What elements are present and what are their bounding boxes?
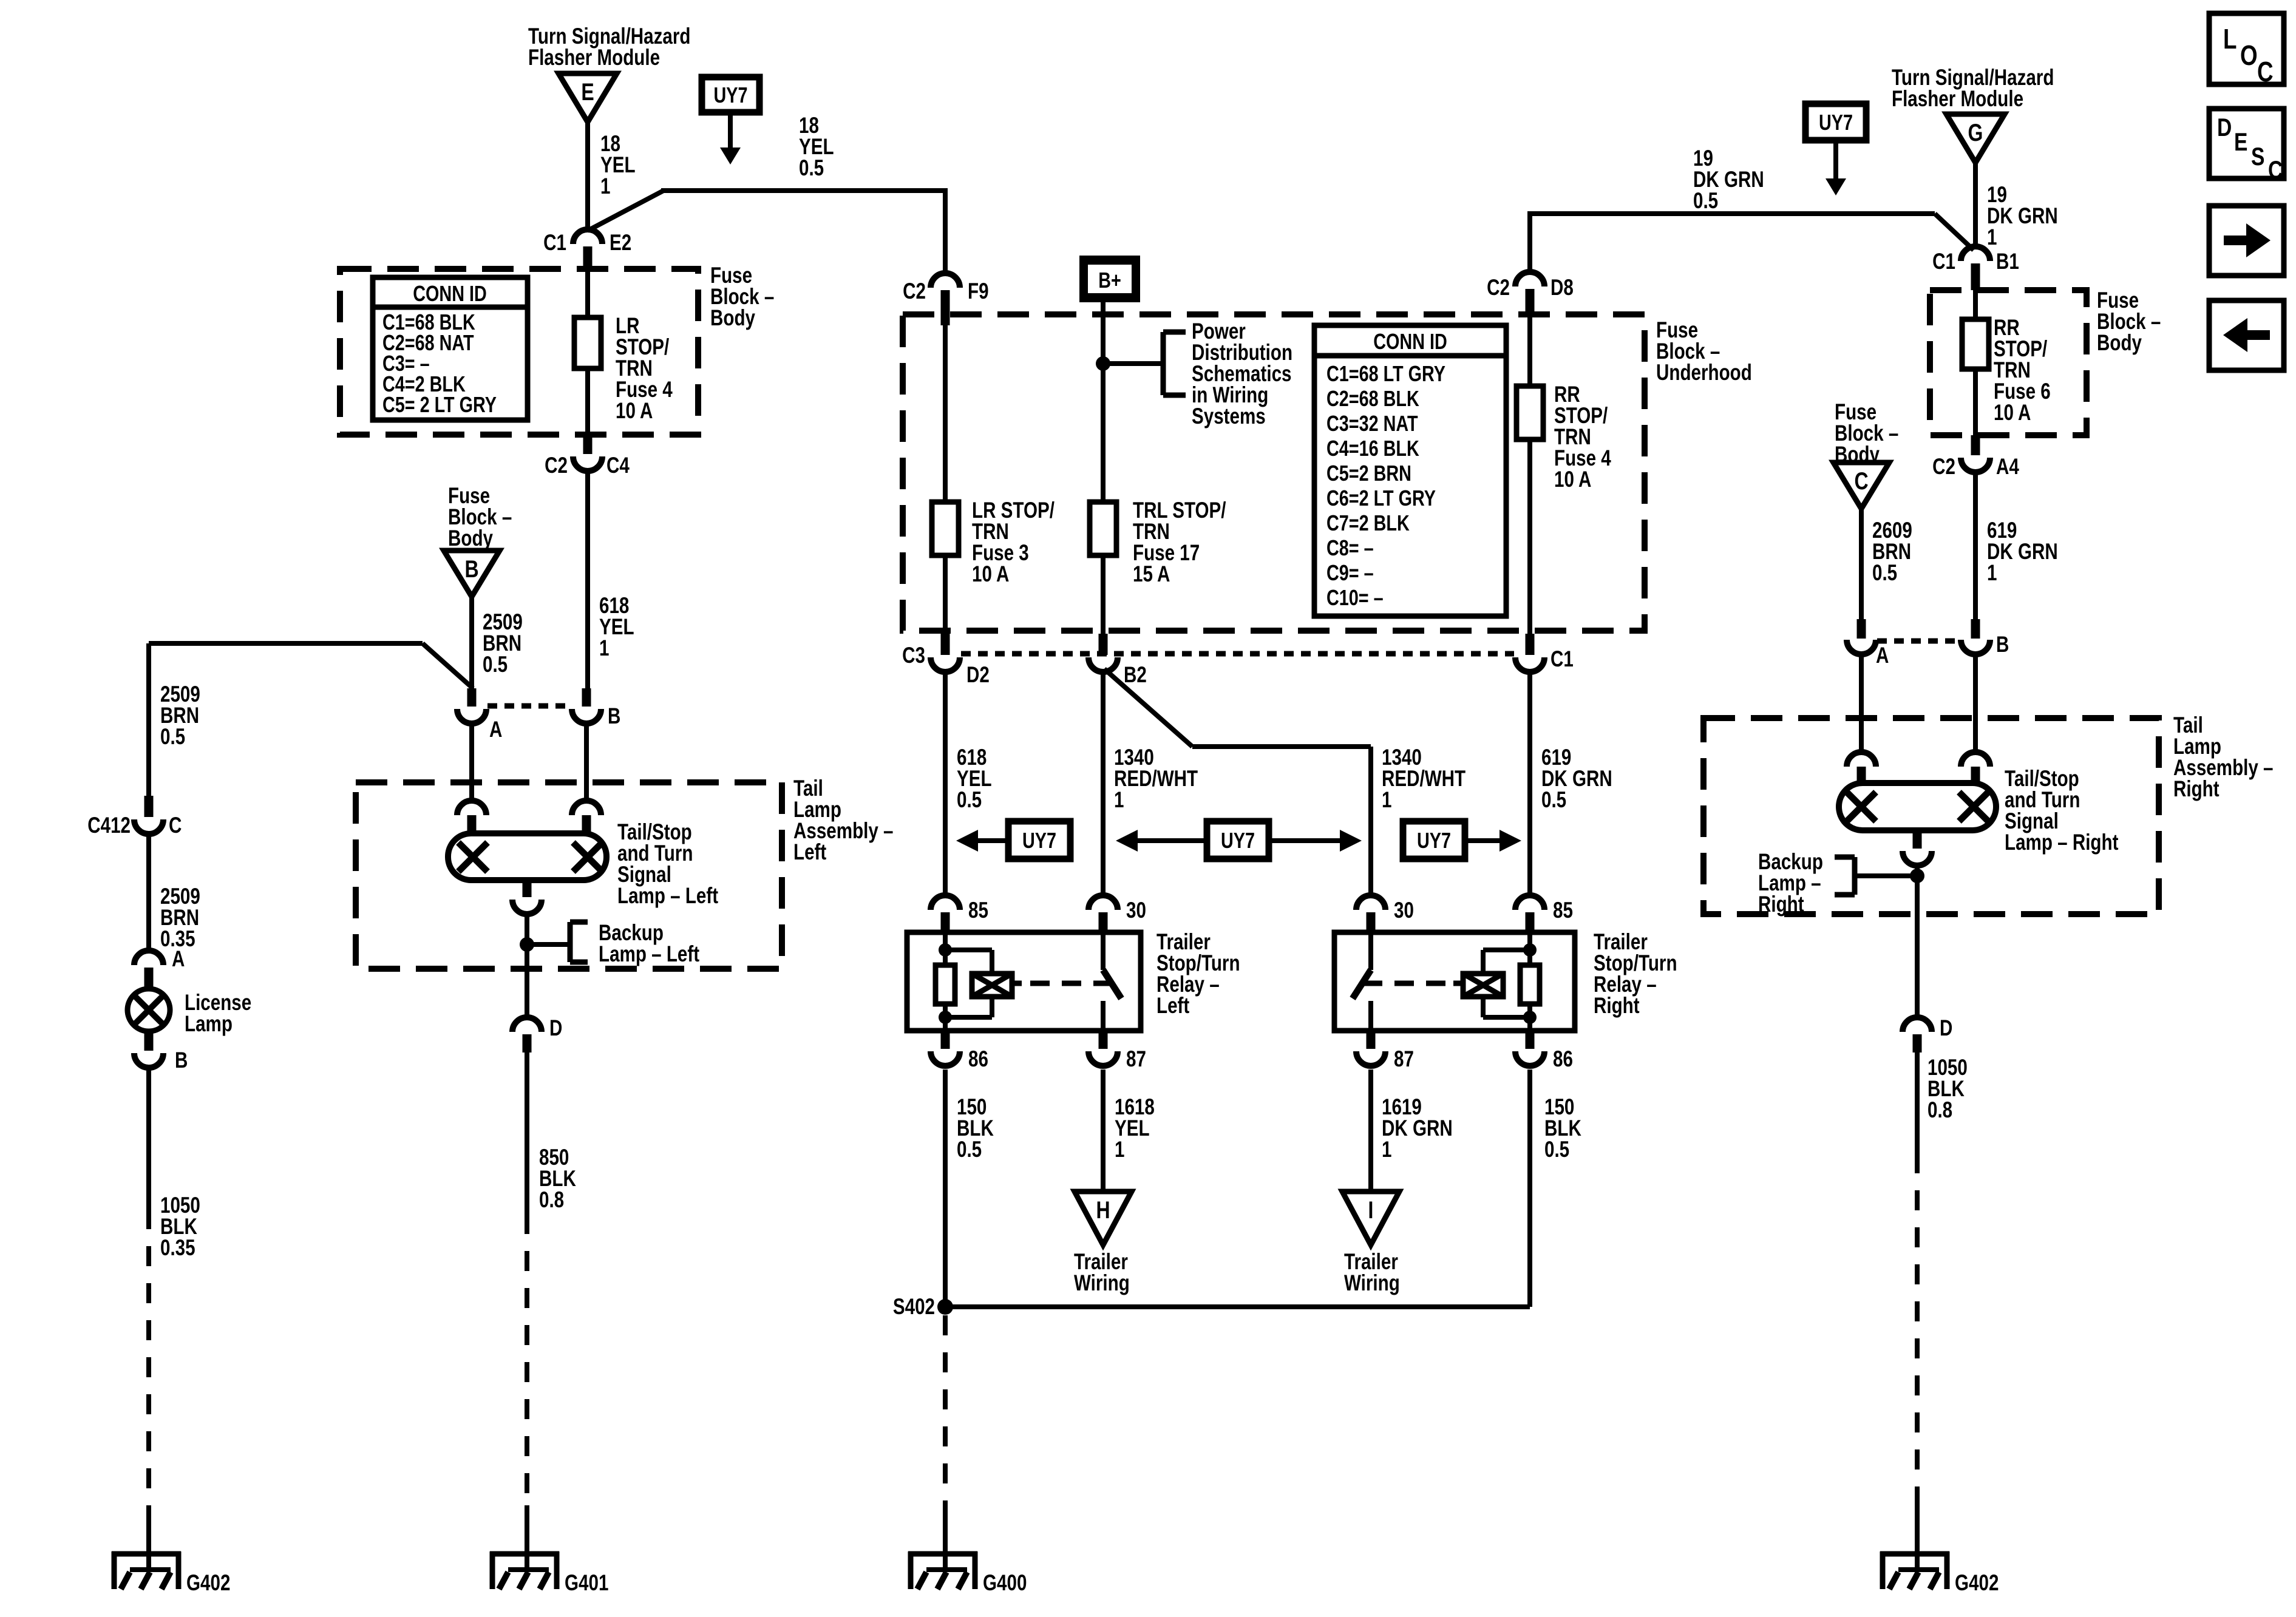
relay right pin 30	[1356, 895, 1385, 910]
svg-text:C: C	[1854, 467, 1868, 495]
connector B (tail lamp left feed)	[582, 688, 591, 707]
arrow UY7 to 618 wire	[978, 838, 1008, 843]
svg-text:C2: C2	[1487, 276, 1510, 300]
inline connector dotted line (left pair)	[487, 703, 571, 709]
svg-text:C2: C2	[545, 453, 568, 478]
svg-text:C3=32 NAT: C3=32 NAT	[1326, 411, 1418, 436]
tail lamp assembly left dashed box	[356, 782, 782, 969]
svg-text:B: B	[608, 704, 620, 729]
nav box arrow left	[2209, 300, 2284, 370]
svg-text:1: 1	[1987, 561, 1997, 586]
svg-text:CONN ID: CONN ID	[413, 281, 487, 306]
svg-text:F9: F9	[968, 279, 989, 304]
wire lamp to junction	[525, 913, 529, 971]
connector C1 (underhood out)	[1526, 634, 1535, 655]
tail/stop turn signal lamp left	[448, 833, 606, 880]
svg-text:DK GRN: DK GRN	[1382, 1116, 1453, 1141]
CONN ID table 1	[373, 277, 528, 420]
svg-text:I: I	[1368, 1196, 1374, 1224]
svg-text:UY7: UY7	[1022, 828, 1056, 853]
svg-text:87: 87	[1126, 1047, 1146, 1072]
wire 618 YEL 0.5 down	[943, 672, 948, 895]
flasher module triangle E	[559, 73, 617, 122]
wire diagonal from C1/E2 to horizontal	[588, 191, 664, 231]
lamp right bottom connector	[1913, 830, 1922, 849]
svg-text:C8= –: C8= –	[1326, 535, 1374, 560]
wire down to C2/F9	[943, 188, 948, 274]
wire B into right box	[1973, 654, 1978, 753]
svg-text:0.5: 0.5	[1541, 788, 1566, 813]
relay left pin 87	[1099, 1031, 1108, 1049]
svg-text:0.5: 0.5	[957, 788, 982, 813]
svg-text:10 A: 10 A	[972, 562, 1009, 587]
svg-text:D2: D2	[966, 663, 990, 688]
svg-text:Right: Right	[1594, 994, 1640, 1019]
flasher module triangle G	[1946, 114, 2005, 163]
connector C2/D8	[1515, 272, 1544, 286]
fuse LR STOP/TRN Fuse 3 10A	[932, 502, 959, 555]
power feed box B+	[1079, 256, 1140, 302]
wire 19 DK GRN horizontal	[1530, 211, 1935, 216]
relay left pin 86	[941, 1031, 950, 1049]
trailer wiring triangle I	[1342, 1192, 1399, 1245]
wire to power distribution bracket	[1103, 361, 1163, 366]
svg-text:0.5: 0.5	[1872, 561, 1897, 586]
relay right resistor	[1520, 965, 1540, 1004]
svg-text:C5= 2 LT GRY: C5= 2 LT GRY	[382, 392, 497, 417]
svg-text:C7=2 BLK: C7=2 BLK	[1326, 510, 1410, 535]
relay left switch	[1101, 932, 1106, 970]
wire lamp right to junction	[1915, 864, 1920, 917]
trailer stop/turn relay left box	[907, 932, 1141, 1031]
wire C2/D8 to C1 right	[1527, 314, 1532, 634]
code box UY7 (618)	[1008, 821, 1070, 859]
relay right coil wire	[1527, 932, 1532, 1031]
fuse block body dashed box (left)	[340, 269, 698, 435]
backup lamp right bracket	[1852, 857, 1858, 895]
svg-text:D8: D8	[1550, 276, 1574, 300]
svg-text:Flasher Module: Flasher Module	[528, 46, 660, 70]
nav box LOC	[2209, 13, 2284, 84]
connector D left	[512, 1017, 542, 1032]
svg-text:H: H	[1096, 1196, 1110, 1224]
svg-text:DK GRN: DK GRN	[1987, 540, 2058, 564]
wire to backup bracket left	[527, 942, 570, 947]
svg-text:Right: Right	[1758, 892, 1804, 917]
wire F9 to C3	[943, 314, 948, 634]
CONN ID table 2	[1314, 325, 1506, 616]
fuse RR STOP/TRN Fuse 4 10A	[1517, 386, 1543, 439]
svg-text:85: 85	[1553, 898, 1573, 923]
svg-text:C: C	[2257, 56, 2274, 87]
svg-text:C4=16 BLK: C4=16 BLK	[1326, 436, 1419, 461]
connector B license lamp	[144, 1030, 154, 1051]
fuse block body triangle C	[1833, 463, 1889, 509]
relay left pin 30	[1089, 895, 1118, 910]
svg-text:C9= –: C9= –	[1326, 560, 1374, 585]
svg-text:Body: Body	[2097, 331, 2142, 356]
wire through fuse block body	[585, 269, 590, 433]
connector C2/C4	[583, 433, 593, 454]
wire solid into G401	[525, 1505, 529, 1554]
code box UY7 top-right	[1805, 104, 1866, 140]
svg-text:Lamp – Left: Lamp – Left	[599, 942, 699, 967]
ground G402 (left)	[112, 1551, 181, 1557]
svg-text:0.5: 0.5	[957, 1137, 982, 1162]
wire E to connector C1/E2	[585, 122, 590, 230]
wire G down	[1973, 163, 1978, 247]
connector C3/D2	[941, 634, 950, 655]
svg-text:86: 86	[968, 1047, 988, 1072]
connector A license lamp	[134, 951, 163, 965]
wire down to C412	[146, 643, 151, 797]
svg-text:1: 1	[600, 174, 610, 199]
arrow UY7 to 619 wire	[1465, 838, 1500, 843]
ground G401	[490, 1551, 559, 1557]
svg-text:1: 1	[599, 636, 609, 661]
nav box arrow right	[2209, 206, 2284, 276]
svg-text:86: 86	[1553, 1047, 1573, 1072]
svg-text:0.8: 0.8	[539, 1188, 564, 1213]
arrow UY7 to 1340 right wire	[1269, 838, 1340, 843]
svg-text:B: B	[464, 555, 478, 583]
trailer wiring triangle H	[1075, 1192, 1132, 1245]
svg-text:10 A: 10 A	[616, 399, 653, 424]
svg-text:S: S	[2251, 143, 2264, 171]
svg-text:C3: C3	[902, 643, 925, 668]
power distribution bracket	[1161, 332, 1166, 395]
wire diagonal to C1/B1	[1935, 214, 1974, 250]
connector C412/C	[144, 796, 154, 817]
wire S402 horizontal	[945, 1304, 1530, 1309]
relay left coil box	[972, 974, 1012, 997]
svg-text:G402: G402	[1955, 1571, 1999, 1596]
svg-text:C: C	[169, 813, 182, 838]
svg-text:10 A: 10 A	[1554, 467, 1591, 492]
lamp connector right dome A	[1847, 752, 1876, 767]
wire B into box	[584, 724, 589, 798]
svg-text:0.5: 0.5	[799, 156, 824, 181]
svg-text:Body: Body	[448, 526, 493, 551]
tail/stop turn signal lamp right	[1839, 783, 1996, 830]
wire 619 DK GRN 0.5 down	[1527, 672, 1532, 895]
svg-text:1: 1	[1987, 225, 1997, 250]
wire dashed to G402 left	[146, 1209, 151, 1505]
svg-text:Right: Right	[2173, 777, 2220, 802]
wire B triangle down	[469, 595, 474, 690]
svg-text:Body: Body	[710, 306, 755, 331]
relay right pin 86	[1526, 1031, 1535, 1049]
svg-text:B+: B+	[1098, 268, 1121, 293]
svg-text:Lamp – Left: Lamp – Left	[617, 884, 718, 909]
connector D right	[1903, 1017, 1932, 1032]
wire dashed to G402 right	[1915, 1153, 1920, 1505]
svg-text:0.5: 0.5	[1544, 1137, 1569, 1162]
svg-text:RED/WHT: RED/WHT	[1114, 767, 1198, 792]
relay left pin 85	[931, 895, 960, 910]
wire diagonal 2509 BRN	[423, 643, 473, 688]
inline harness dotted line	[961, 651, 1514, 657]
wire to connector D left	[525, 971, 529, 1017]
wire D left down	[525, 1053, 529, 1214]
svg-text:CONN ID: CONN ID	[1373, 329, 1447, 354]
wire B+ down	[1101, 302, 1106, 502]
fuse block underhood dashed box	[903, 314, 1645, 631]
relay left coil wire	[943, 932, 948, 1031]
inline connector dotted (right pair)	[1877, 639, 1960, 644]
svg-text:G402: G402	[186, 1571, 230, 1596]
svg-text:B: B	[1996, 632, 2009, 657]
trailer stop/turn relay right box	[1334, 932, 1575, 1031]
arrow from UY7 right down	[1833, 140, 1838, 178]
relay right coil box	[1463, 974, 1503, 997]
wire S402 riser right	[1527, 1070, 1532, 1307]
svg-text:1: 1	[1114, 788, 1124, 813]
svg-text:E: E	[2234, 129, 2247, 157]
wire 1619 DK GRN 1	[1368, 1070, 1373, 1193]
svg-text:10 A: 10 A	[1994, 401, 2031, 425]
connector A right	[1857, 619, 1866, 639]
svg-text:C2: C2	[1932, 455, 1955, 480]
wire D right down	[1915, 1053, 1920, 1153]
svg-text:UY7: UY7	[1221, 828, 1255, 853]
svg-text:B2: B2	[1124, 663, 1147, 688]
svg-text:0.8: 0.8	[1927, 1098, 1952, 1123]
svg-text:Wiring: Wiring	[1344, 1271, 1400, 1296]
wire license lamp down	[146, 1066, 151, 1209]
svg-text:C2=68 BLK: C2=68 BLK	[1326, 386, 1419, 411]
wire B+ through fuse 17	[1101, 502, 1106, 634]
ground G402 (right)	[1880, 1551, 1949, 1557]
splice S402 dot	[937, 1299, 953, 1315]
svg-text:1: 1	[1382, 788, 1391, 813]
svg-text:85: 85	[968, 898, 988, 923]
wire dashed to G401	[525, 1214, 529, 1505]
wire 618 YEL 1	[585, 470, 590, 690]
wire solid into G402 right	[1915, 1505, 1920, 1554]
svg-text:C2: C2	[903, 279, 926, 304]
svg-text:C4: C4	[606, 453, 630, 478]
svg-text:Lamp – Right: Lamp – Right	[2005, 830, 2118, 855]
svg-text:0.5: 0.5	[483, 653, 508, 677]
svg-text:G401: G401	[565, 1571, 608, 1596]
junction dot backup lamp left	[520, 937, 534, 952]
svg-text:1: 1	[1115, 1137, 1124, 1162]
wire through right fuse block	[1973, 290, 1978, 435]
svg-text:Underhood: Underhood	[1656, 361, 1752, 385]
svg-text:30: 30	[1394, 898, 1414, 923]
wire A into box	[469, 724, 474, 798]
relay right junction dots	[1523, 943, 1537, 957]
wire 19 DK GRN riser	[1527, 211, 1532, 273]
svg-text:Systems: Systems	[1192, 404, 1266, 429]
relay left coil branch	[945, 947, 992, 952]
ground G400	[908, 1551, 977, 1557]
svg-text:Left: Left	[793, 840, 826, 865]
svg-text:D: D	[549, 1016, 562, 1041]
svg-text:0.35: 0.35	[160, 1236, 195, 1261]
connector B right	[1971, 619, 1980, 639]
wire horizontal 18 YEL 0.5	[661, 188, 946, 193]
svg-text:DK GRN: DK GRN	[1987, 204, 2058, 229]
code box UY7 (619)	[1403, 821, 1465, 859]
lamp connector left dome	[457, 801, 486, 815]
svg-text:C5=2 BRN: C5=2 BRN	[1326, 461, 1411, 486]
fuse TRL STOP/TRN Fuse 17 15A	[1090, 502, 1116, 555]
fuse block body dashed box (right)	[1930, 290, 2087, 435]
wire A into right box	[1859, 654, 1864, 753]
nav box DESC	[2209, 109, 2284, 178]
svg-text:UY7: UY7	[1417, 828, 1451, 853]
junction dot power distribution	[1096, 356, 1110, 371]
wire S402 dashed down	[943, 1315, 948, 1505]
svg-text:Flasher Module: Flasher Module	[1892, 87, 2023, 112]
svg-text:C412: C412	[87, 813, 131, 838]
svg-text:A: A	[1876, 643, 1889, 668]
svg-text:D: D	[2217, 114, 2232, 142]
svg-text:30: 30	[1126, 898, 1146, 923]
arrow from UY7 down	[728, 112, 733, 147]
relay left actuator dashed	[1012, 981, 1022, 986]
svg-text:C: C	[2268, 157, 2283, 185]
svg-text:A4: A4	[1996, 455, 2019, 480]
connector A (tail lamp left feed)	[467, 688, 477, 707]
svg-text:A: A	[489, 717, 502, 742]
wire horizontal to relay right 30	[1192, 744, 1371, 749]
wire 150 BLK 0.5 right	[1527, 1070, 1532, 1307]
svg-text:C1: C1	[1550, 647, 1574, 672]
connector C1/B1	[1961, 246, 1990, 261]
svg-text:87: 87	[1394, 1047, 1414, 1072]
relay right pin 85	[1515, 895, 1544, 910]
wire A4 down	[1973, 472, 1978, 620]
wire 150 BLK 0.5 left	[943, 1070, 948, 1307]
svg-text:G400: G400	[983, 1571, 1027, 1596]
connector B2	[1099, 634, 1108, 655]
wire 1618 YEL 1	[1101, 1070, 1106, 1193]
license lamp bulb	[127, 989, 170, 1031]
svg-text:UY7: UY7	[714, 83, 748, 107]
svg-text:B: B	[175, 1048, 188, 1073]
svg-text:C10= –: C10= –	[1326, 585, 1384, 610]
svg-text:C1: C1	[1932, 249, 1955, 274]
wire solid into G400	[943, 1505, 948, 1554]
wire to backup bracket right	[1855, 873, 1917, 878]
wire diagonal from B2	[1104, 669, 1192, 747]
svg-text:E2: E2	[610, 231, 631, 256]
tail lamp assembly right dashed box	[1703, 718, 2159, 914]
wire 1340 RED/WHT 1 down	[1101, 672, 1106, 895]
relay right switch	[1368, 932, 1373, 970]
lamp bottom connector	[523, 880, 532, 897]
arrow UY7 to 1340 left wire	[1138, 838, 1207, 843]
svg-text:UY7: UY7	[1819, 110, 1853, 135]
wire solid into G402 left	[146, 1505, 151, 1554]
svg-text:C1: C1	[543, 231, 566, 256]
wire to connector D right	[1915, 917, 1920, 1017]
wire C412 to license lamp	[146, 833, 151, 951]
svg-text:15 A: 15 A	[1133, 562, 1170, 587]
code box UY7 top-left	[702, 77, 759, 112]
relay right coil branch	[1483, 947, 1530, 952]
junction dot backup lamp right	[1910, 869, 1924, 883]
svg-text:0.5: 0.5	[160, 725, 185, 750]
relay left resistor	[936, 965, 955, 1004]
svg-text:O: O	[2240, 39, 2258, 71]
backup lamp left bracket	[568, 922, 573, 962]
svg-text:E: E	[581, 78, 594, 106]
svg-text:C6=2 LT GRY: C6=2 LT GRY	[1326, 486, 1436, 510]
lamp connector right dome	[572, 801, 601, 815]
svg-text:Lamp: Lamp	[185, 1012, 233, 1037]
wire horizontal 2509 BRN	[149, 641, 423, 646]
svg-text:C1=68 LT GRY: C1=68 LT GRY	[1326, 361, 1445, 386]
fuse LR STOP/TRN Fuse 4 10A (body)	[574, 317, 601, 368]
connector C2/A4	[1971, 435, 1980, 455]
lamp connector right dome B	[1961, 752, 1990, 767]
svg-text:B1: B1	[1996, 249, 2019, 274]
fuse block body triangle B	[444, 551, 500, 597]
wire C triangle down	[1859, 509, 1864, 620]
relay right actuator dashed	[1453, 981, 1463, 986]
connector C2/F9	[931, 273, 960, 288]
svg-text:Wiring: Wiring	[1074, 1271, 1130, 1296]
wire down to relay right 30	[1368, 747, 1373, 895]
svg-text:A: A	[172, 947, 185, 972]
relay left junction dots	[939, 943, 952, 957]
svg-text:1: 1	[1382, 1137, 1391, 1162]
svg-text:D: D	[1940, 1016, 1952, 1041]
svg-text:L: L	[2223, 23, 2237, 55]
fuse RR STOP/TRN Fuse 6 10A	[1962, 319, 1989, 369]
svg-text:Left: Left	[1156, 994, 1189, 1019]
connector C1/E2	[573, 229, 602, 244]
code box UY7 (1340 middle)	[1207, 821, 1269, 859]
svg-text:0.5: 0.5	[1693, 189, 1718, 214]
relay right pin 87	[1367, 1031, 1376, 1049]
svg-text:RED/WHT: RED/WHT	[1382, 767, 1466, 792]
svg-text:S402: S402	[893, 1295, 935, 1320]
svg-text:G: G	[1968, 119, 1983, 146]
